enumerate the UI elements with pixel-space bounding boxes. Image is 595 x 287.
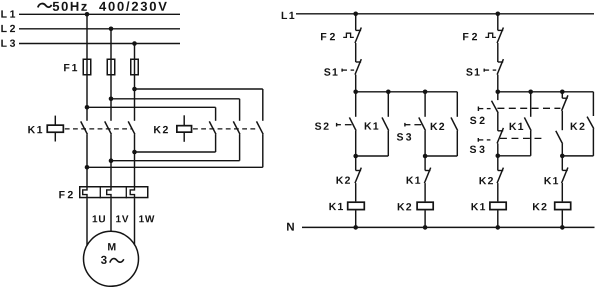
label K1 (coil B)	[472, 203, 479, 210]
label F2 (overload relay)	[59, 191, 64, 198]
node L2 tap	[109, 27, 114, 32]
fuse F1 phase1	[86, 59, 88, 76]
contact S1 NC pushbutton at x=497.8	[498, 61, 503, 63]
mechanical link S3 (dashed)	[500, 137, 544, 139]
wire feed phase3 to K2 contact3	[135, 88, 263, 90]
label K2 (contactor)	[154, 126, 161, 133]
wire phase2 below K1	[110, 134, 112, 186]
label S2 (B)	[470, 117, 476, 124]
label K1 (holding A)	[365, 122, 372, 129]
label K2 (holding A)	[431, 123, 438, 130]
overload F2 heater phase2	[107, 186, 111, 198]
wire K2 pole3 output crossover	[262, 134, 264, 167]
contact K2 pole2	[233, 121, 240, 134]
wire L1 control rail	[296, 13, 594, 15]
contactor K2 operator	[183, 115, 185, 125]
overload trip symbol F2	[485, 33, 496, 37]
wire phase3 L3 to fuse	[134, 44, 136, 59]
wire K1 holding to join (B)	[530, 131, 532, 156]
wire S3 to join node	[424, 131, 426, 156]
node join B1	[496, 154, 501, 159]
label S3 (B)	[470, 146, 476, 153]
label 50Hz 400/230V	[53, 2, 59, 11]
label N	[287, 223, 294, 231]
node phase3 feed to K2	[132, 87, 137, 92]
wire K2 pole2 output	[239, 134, 241, 160]
label K1 (interlock A)	[407, 177, 414, 184]
wire F2 to S1	[497, 43, 499, 62]
node join A3	[423, 154, 428, 159]
contact K1 pole1	[81, 121, 88, 134]
wire 1U to motor	[86, 198, 88, 245]
contact K2 interlock NC (B)	[497, 156, 499, 171]
mechanical link S2 (dashed)	[497, 107, 560, 109]
wire S2NC to S3NO (B)	[561, 111, 563, 130]
wire L3 supply line	[19, 43, 180, 45]
label L2 (power)	[1, 25, 6, 32]
wire L2 supply line	[19, 28, 180, 30]
overload relay F2 box	[80, 187, 148, 198]
node N tap K2 coil (B)	[560, 225, 565, 230]
wire K2 holding to join (B)	[592, 129, 594, 156]
wire F2 to S1	[355, 43, 357, 62]
node N tap K2 coil (A)	[423, 225, 428, 230]
wire K1 holding to join	[387, 131, 389, 156]
node L1 tap control	[496, 12, 501, 17]
label terminal 1U	[93, 215, 98, 222]
label terminal 1W	[139, 215, 144, 222]
wire S1 to row bus	[497, 75, 499, 92]
label K1 (interlock B)	[545, 177, 552, 184]
wire L1 to F2 contact	[355, 14, 357, 31]
wire S3 to join node (B)	[497, 143, 499, 155]
wire K2 interlock to K1 coil	[355, 183, 357, 201]
wire K1 coil to N (B)	[497, 210, 499, 227]
contact S2 NO pushbutton (B)	[497, 92, 499, 100]
pushbutton actuator S2 (B)	[477, 107, 479, 112]
label K1 (coil A)	[329, 203, 336, 210]
pushbutton actuator S3 (B)	[477, 138, 479, 142]
label K1 (holding B)	[510, 123, 517, 130]
contact K2 holding NO	[456, 92, 458, 117]
contact K2 pole1	[209, 121, 216, 134]
node L3 tap	[132, 41, 137, 46]
contact F2 thermal NC at x=497.8	[498, 29, 503, 31]
node N tap K1 coil (A)	[353, 225, 358, 230]
coil K2 (A)	[417, 202, 433, 209]
node crossover phase3	[132, 150, 137, 155]
mechanical link K1 (dashed)	[65, 128, 132, 130]
node crossover phase2	[109, 158, 114, 163]
node L1 tap control	[353, 12, 358, 17]
label S3 (A)	[397, 133, 403, 140]
wire phase1 below K1	[86, 134, 88, 186]
contact S2 NO pushbutton	[355, 92, 357, 117]
AC tilde symbol in title	[38, 4, 52, 8]
overload F2 heater phase3	[130, 186, 134, 198]
contact K1 pole2	[105, 121, 112, 134]
contact K1 holding NO (B)	[530, 92, 532, 117]
label F2 (control)	[463, 33, 468, 40]
wire feed phase2 to K2 contact2	[111, 98, 240, 100]
label S2 (A)	[315, 122, 321, 129]
wire K2 coil to N (B)	[561, 210, 563, 227]
node phase2 feed to K2	[109, 97, 114, 102]
coil K2 (B)	[555, 202, 571, 209]
contact K2 interlock NC (A)	[355, 156, 357, 171]
contact S3 NC pushbutton (B)	[497, 113, 499, 131]
wire N rail	[302, 226, 595, 228]
wire phase2 fuse to K1 contact	[110, 76, 112, 121]
label S1	[324, 68, 330, 75]
wire K2 pole1 output crossover	[215, 134, 217, 152]
pushbutton actuator S3 (A)	[404, 123, 406, 127]
wire phase3 fuse to K1 contact	[134, 76, 136, 121]
wire row bus circuit A	[356, 91, 458, 93]
label K2 (coil B)	[533, 203, 540, 210]
contact K1 interlock NC (B)	[561, 156, 563, 171]
wire L1 supply line	[19, 13, 180, 15]
coil K1 (B)	[490, 202, 506, 209]
node row bus K1-branch B	[528, 90, 533, 95]
wire feed phase1 to K2 contact1	[87, 106, 216, 108]
node row bus S3-branch A	[423, 90, 428, 95]
label terminal 1V	[116, 215, 121, 222]
contactor K1 operator	[54, 116, 56, 126]
contact S1 NC pushbutton at x=355.7	[356, 61, 361, 63]
wire K2 coil to N	[424, 210, 426, 227]
contact K1 pole3	[128, 121, 135, 134]
label L3 (power)	[1, 40, 6, 47]
wire row bus circuit B	[498, 91, 594, 93]
node crossover phase1	[85, 165, 90, 170]
label K2 (interlock A)	[337, 177, 344, 184]
wire 1V to motor	[110, 198, 112, 231]
wire K1 coil to N	[355, 210, 357, 227]
wire S1 to row bus	[355, 75, 357, 92]
wire S3NO to join (B)	[561, 144, 563, 156]
node join A1	[353, 154, 358, 159]
contact K2 holding NO (B)	[592, 92, 594, 116]
wire K1 interlock to K2 coil (B)	[561, 183, 563, 201]
node join B3	[560, 154, 565, 159]
fuse F1 phase3	[134, 59, 136, 76]
label K2 (coil A)	[398, 203, 405, 210]
node phase1 feed to K2	[85, 105, 90, 110]
contact S2 NC pushbutton (B)	[561, 92, 563, 98]
node L1 tap	[85, 12, 90, 17]
label F2 (control)	[321, 33, 326, 40]
contact S3 NO pushbutton	[424, 92, 426, 117]
label L1 (power)	[1, 10, 6, 17]
wire phase2 L2 to fuse	[110, 29, 112, 59]
wire phase1 fuse to K1 contact	[86, 76, 88, 121]
label K2 (interlock B)	[480, 177, 487, 184]
label F1	[64, 64, 69, 71]
node row bus S2NC-branch B	[560, 90, 565, 95]
pushbutton actuator S2 (A)	[336, 123, 338, 127]
label K2 (holding B)	[571, 123, 578, 130]
wire K1 interlock to K2 coil	[424, 183, 426, 201]
coil K1 (A)	[348, 202, 365, 209]
mechanical link K2 (dashed)	[193, 128, 259, 130]
pushbutton actuator S1	[483, 69, 485, 72]
label S1	[466, 68, 472, 75]
contact K2 pole3	[257, 121, 264, 134]
contact S3 NO pushbutton (B)	[556, 131, 563, 144]
wire K2 holding to join	[456, 131, 458, 156]
label L1 (control)	[282, 12, 287, 19]
wire K2 interlock to K1 coil (B)	[497, 183, 499, 201]
wire phase3 below K1	[134, 134, 136, 186]
label K1 (contactor)	[28, 126, 35, 133]
node row bus K1-branch A	[386, 90, 391, 95]
node row bus main	[496, 90, 501, 95]
motor AC tilde	[110, 259, 124, 263]
contact F2 thermal NC at x=355.7	[356, 29, 361, 31]
node row bus main	[353, 90, 358, 95]
wire L1 to F2 contact	[497, 14, 499, 31]
motor M1 circle	[84, 231, 139, 286]
fuse F1 phase2	[110, 59, 112, 76]
wire 1W to motor	[134, 198, 136, 244]
wire S2 to join node	[355, 131, 357, 156]
label M	[108, 243, 115, 250]
wire phase1 L1 to fuse	[86, 14, 88, 58]
overload trip symbol F2	[343, 33, 354, 37]
contact K1 interlock NC (A)	[424, 156, 426, 171]
overload F2 heater phase1	[83, 186, 87, 198]
contact K1 holding NO	[387, 92, 389, 117]
label 3 (phases)	[101, 256, 107, 264]
node N tap K1 coil (B)	[496, 225, 501, 230]
pushbutton actuator S1	[341, 69, 343, 72]
